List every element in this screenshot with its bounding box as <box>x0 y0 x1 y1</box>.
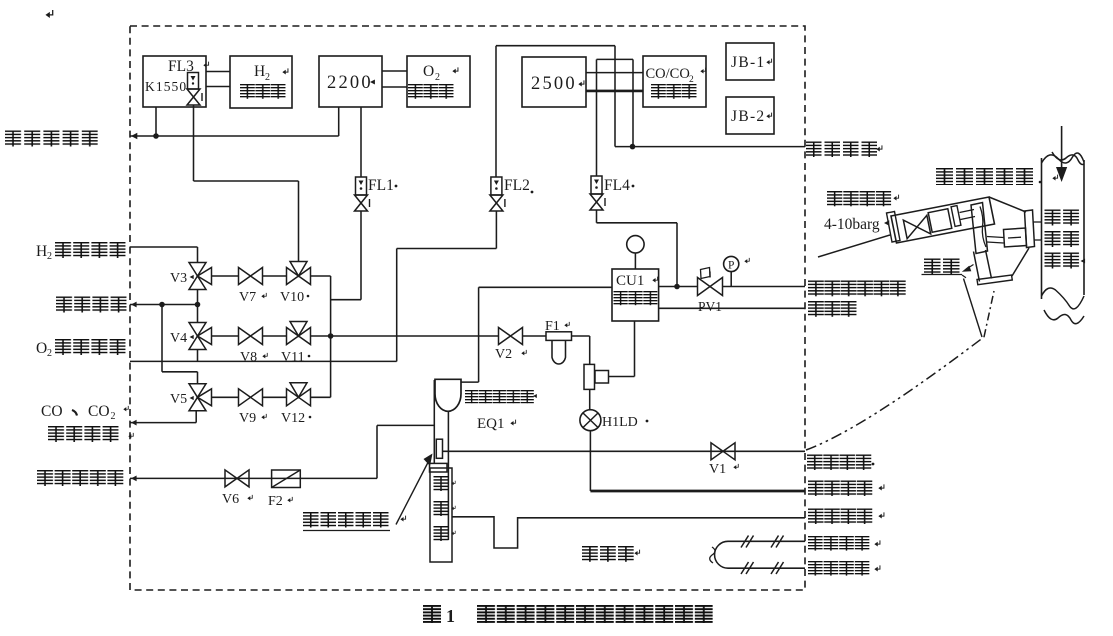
wires FL3 to H2 analyzer <box>206 71 230 73</box>
box 2200 <box>319 56 382 107</box>
svg-text:PV1: PV1 <box>698 299 722 314</box>
svg-text:V6: V6 <box>222 492 239 507</box>
wire FL3 valve to V10 top <box>193 105 195 181</box>
svg-text:2: 2 <box>47 348 52 359</box>
wire V5-V9 <box>212 396 239 398</box>
valve V10 <box>287 268 299 285</box>
valve V11 <box>287 328 299 345</box>
pointer to injector <box>396 460 430 525</box>
svg-text:CU1: CU1 <box>616 273 644 289</box>
valve V6 <box>225 470 237 487</box>
wire F1 to heater <box>572 335 590 337</box>
svg-text:2: 2 <box>435 72 440 83</box>
svg-text:4-10barg: 4-10barg <box>824 216 880 233</box>
wire V9-V12 <box>263 396 287 398</box>
svg-text:FL1: FL1 <box>368 177 394 194</box>
wire separator riser <box>478 287 480 382</box>
svg-text:EQ1: EQ1 <box>477 416 505 432</box>
wire heater down to H1LD <box>589 389 591 409</box>
label CO CO2 span gas 2 <box>48 426 119 442</box>
ejector grip band <box>974 252 980 282</box>
gauge on cooler <box>627 236 644 253</box>
figure caption <box>423 605 441 623</box>
svg-text:FL2: FL2 <box>504 177 530 194</box>
wire V7-V10 <box>263 275 287 277</box>
ejector tip line <box>964 279 983 338</box>
wire V3 bottom to V4 top <box>197 290 199 323</box>
svg-text:V4: V4 <box>170 331 187 346</box>
valve V8 <box>239 328 251 345</box>
svg-text:F1: F1 <box>545 319 560 334</box>
washer cap <box>430 463 448 472</box>
box O2 analyzer <box>407 56 470 107</box>
box CO/CO2 analyzer <box>643 56 706 107</box>
label sample gas inlet <box>807 455 871 471</box>
node zero gas V3/V4 <box>195 302 201 308</box>
svg-text:V5: V5 <box>170 392 187 407</box>
wires 2500 to CO/CO2 analyzer <box>586 72 643 74</box>
svg-text:CO: CO <box>88 403 110 420</box>
label exhaust outlet <box>806 142 877 158</box>
wire V8-V11 <box>263 335 287 337</box>
node bus/V11 junction <box>328 333 334 339</box>
cooler CU1 box <box>612 269 659 321</box>
ejector barrel <box>891 197 995 243</box>
svg-text:V12: V12 <box>281 411 305 426</box>
svg-text:V8: V8 <box>240 350 257 365</box>
svg-text:CO: CO <box>41 403 63 420</box>
duct bottom break <box>1042 288 1085 309</box>
label cooling water inlet <box>37 470 123 486</box>
wire separator downpipe <box>433 380 435 464</box>
svg-text:FL4: FL4 <box>604 177 630 194</box>
svg-text:2200: 2200 <box>327 73 373 93</box>
svg-text:2: 2 <box>689 75 694 85</box>
valve V5 <box>189 384 206 398</box>
wire cooling water inlet <box>130 477 377 479</box>
svg-text:P: P <box>728 260 734 272</box>
valve V3 <box>189 263 206 277</box>
wire PV1 to border <box>723 286 806 288</box>
svg-text:2: 2 <box>47 251 52 262</box>
duct top break <box>1042 153 1085 163</box>
box FL3/K1550 flow controller <box>143 56 206 107</box>
wire top rail FL2 to exhaust drop <box>496 45 615 47</box>
ejector outlet flange <box>1025 210 1035 248</box>
box H2 analyzer <box>230 56 292 108</box>
ejector barrel flange tick <box>951 206 961 227</box>
ejector rod to chamber <box>960 210 975 213</box>
label air out <box>808 301 857 317</box>
water injector <box>436 439 442 458</box>
wire FL4 loop over CO/CO2 <box>597 58 634 60</box>
label zero gas inlet <box>56 297 127 313</box>
wire V4-V8 <box>212 335 239 337</box>
ejector suction chamber <box>971 203 988 254</box>
svg-text:CO/CO: CO/CO <box>646 66 690 82</box>
svg-text:O: O <box>423 63 434 80</box>
label drain outlet 2 <box>808 509 872 525</box>
FL3 internal flowmeter <box>188 73 199 90</box>
label steam ejector <box>936 168 1033 185</box>
valve V12 <box>287 389 299 406</box>
wire FL3 box to vent line <box>155 107 157 136</box>
filter F1 <box>546 332 572 341</box>
svg-text:JB-1: JB-1 <box>731 54 765 71</box>
valve PV1 <box>698 278 711 296</box>
node vent/FL3 junction <box>153 133 159 139</box>
indicator H1LD <box>580 410 601 431</box>
ejector barrel square <box>928 209 952 233</box>
label water injection device <box>303 512 389 528</box>
wire V3-V7 <box>212 275 239 277</box>
sample probe dash-dot line <box>806 337 984 450</box>
ejector rod to nozzle <box>987 237 1004 238</box>
ejector venturi curve <box>980 207 986 248</box>
valve V1 <box>711 443 723 460</box>
valve V2 <box>499 328 511 345</box>
wire V11 output to V2 <box>311 335 499 337</box>
svg-text:2: 2 <box>111 411 116 422</box>
wires 2200 to O2 analyzer <box>382 70 407 72</box>
ejector funnel lower edge <box>1012 248 1029 276</box>
ejector flange stubs to duct <box>1034 221 1042 223</box>
label steam outlet <box>808 561 869 576</box>
label adiabatic <box>924 259 960 276</box>
wire washer drain (outlet 2) <box>452 517 805 548</box>
circulation duct walls <box>1041 158 1043 299</box>
steam heating loop <box>715 541 805 568</box>
svg-text:V9: V9 <box>239 411 256 426</box>
svg-text:2: 2 <box>265 72 270 83</box>
dashed cabinet border (analysis cabinet) <box>130 26 805 590</box>
svg-text:1: 1 <box>446 606 455 626</box>
wire CO/CO2 span gas inlet <box>130 422 196 424</box>
wire cooler left to separator riser <box>479 286 612 288</box>
svg-text:JB-2: JB-2 <box>731 108 765 125</box>
svg-text:O: O <box>36 340 47 357</box>
label superheated steam <box>827 191 891 206</box>
wire FL2 return to O2 span line <box>495 211 497 249</box>
label sample vent port <box>5 131 98 147</box>
wire separator outlet into washer <box>447 412 449 541</box>
flowmeter FL2 <box>491 177 502 195</box>
svg-text:V2: V2 <box>495 347 512 362</box>
svg-text:F2: F2 <box>268 494 283 509</box>
wire O2 span gas inlet <box>130 360 397 362</box>
svg-text:V3: V3 <box>170 271 187 286</box>
FL3 internal valve <box>187 89 200 97</box>
flowmeter FL4 <box>591 176 602 194</box>
label circulation gas duct <box>1045 210 1080 226</box>
box JB-2 <box>726 97 774 134</box>
node exhaust junction <box>630 144 636 150</box>
node cooler/FL4 junction <box>674 284 680 290</box>
label drain outlet 1 <box>808 481 872 497</box>
gauge P <box>724 256 739 271</box>
label compressed air inlet <box>808 281 906 297</box>
wire sample vent line <box>130 135 339 137</box>
label steam inlet <box>808 536 869 551</box>
wire FL4 to cooler junction <box>596 210 598 223</box>
wire V12 to bus <box>311 396 331 398</box>
wire V10 to bus <box>311 275 331 277</box>
valve V9 <box>239 389 251 406</box>
wire 2200 left drop to vent line <box>338 107 340 136</box>
top-left return mark <box>45 10 52 18</box>
ejector barrel inlet flange <box>887 212 901 243</box>
svg-text:H1LD: H1LD <box>602 415 638 430</box>
wire exhaust outlet line <box>615 146 805 148</box>
wire air out line <box>659 307 805 309</box>
ejector foot plate <box>977 275 1012 285</box>
wire heater to cooler bottom <box>609 376 635 378</box>
flowmeter FL1 <box>360 107 362 177</box>
svg-text:H: H <box>36 243 47 260</box>
flow arrow into duct <box>1061 126 1063 168</box>
wire cooler right / compressed air line <box>659 286 698 288</box>
svg-text:H: H <box>254 63 265 80</box>
wire zero gas bypass to V5 <box>161 305 163 372</box>
ejector body top edge <box>989 197 1026 212</box>
valve V4 <box>189 323 206 337</box>
wire V4 bottom to O2 line <box>197 350 199 362</box>
svg-text:V10: V10 <box>280 290 304 305</box>
box 2500 <box>522 57 586 107</box>
node zero gas branch <box>159 302 165 308</box>
ejector barrel valve <box>903 215 930 238</box>
wire zero gas inlet <box>130 304 198 306</box>
wire FL1 to valve bus <box>360 211 362 300</box>
wire V2 to F1 <box>523 335 547 337</box>
wire drain outlet 1 (bold) <box>590 490 805 493</box>
separator EQ1 dome <box>435 379 461 411</box>
svg-text:V7: V7 <box>239 290 256 305</box>
filter F2 <box>272 470 301 488</box>
label analysis cabinet <box>582 546 634 562</box>
PV1 actuator <box>709 272 711 278</box>
ejector nozzle box <box>1004 228 1027 247</box>
svg-text:V11: V11 <box>281 350 305 365</box>
wire sample inlet line <box>443 450 806 452</box>
wire H2 span gas inlet <box>130 246 198 248</box>
box JB-1 <box>726 43 774 80</box>
svg-text:K1550: K1550 <box>145 79 187 94</box>
washer body <box>430 468 452 562</box>
svg-text:2500: 2500 <box>531 74 577 94</box>
heater block <box>584 364 595 389</box>
wire valve bus vertical <box>330 276 332 397</box>
wire H1LD to drain <box>589 431 591 491</box>
valve V7 <box>239 268 251 285</box>
svg-text:V1: V1 <box>709 462 726 477</box>
steam supply line <box>818 235 890 257</box>
